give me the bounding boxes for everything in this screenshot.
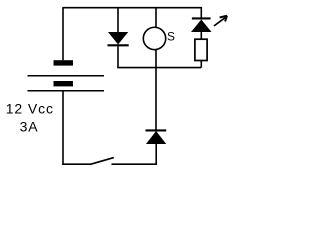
svg-text:S: S xyxy=(167,29,175,43)
wire bottom rail left xyxy=(62,163,90,165)
diode D1 triangle xyxy=(108,32,128,45)
wire battery top lead xyxy=(62,7,64,60)
wire bottom rail right xyxy=(112,163,158,165)
wire LED top lead xyxy=(200,7,202,18)
wire D3 cathode to motor xyxy=(155,50,157,130)
diode D1 cathode bar xyxy=(108,44,129,46)
switch SW1 blade xyxy=(90,158,114,165)
resistor R1 xyxy=(195,39,207,60)
battery B1 plate long bottom xyxy=(28,90,105,92)
wire LED to resistor xyxy=(200,32,202,40)
wire resistor bottom lead xyxy=(200,61,202,68)
diode D3 triangle xyxy=(146,131,166,144)
wire top bus xyxy=(63,7,201,9)
wire motor top lead xyxy=(155,7,157,28)
svg-text:12 Vcc: 12 Vcc xyxy=(6,101,54,117)
wire battery bottom lead xyxy=(62,91,64,165)
LED D2 arrow xyxy=(214,16,227,26)
battery B1 plate short lower xyxy=(54,81,74,86)
wire D1 bottom lead xyxy=(117,46,119,67)
wire diode D3 anode lead xyxy=(155,143,157,165)
motor S circle xyxy=(143,27,165,49)
diode D3 cathode bar xyxy=(146,129,167,131)
LED D2 cathode bar xyxy=(192,17,211,19)
battery B1 plate long upper xyxy=(28,75,105,77)
wire middle bus xyxy=(117,67,201,69)
svg-text:3A: 3A xyxy=(20,118,39,134)
battery B1 plate short top xyxy=(54,60,74,65)
wire diode D1 top lead xyxy=(117,7,119,33)
LED D2 triangle xyxy=(191,20,212,33)
